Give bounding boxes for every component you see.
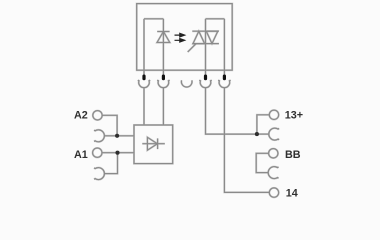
wire socket4 down to 13+ feed (206, 88, 257, 134)
wire output loop top rail (206, 18, 225, 20)
wire 13+ to bridge socket (257, 133, 269, 135)
rectifier box (134, 125, 173, 164)
relay body box U1 (137, 4, 233, 71)
terminal BB circle (269, 149, 278, 158)
plug contact 2 (162, 75, 165, 81)
bridge socket 13+ (269, 128, 279, 140)
wire socket1 to rectifier (143, 88, 145, 125)
wire A1 to rectifier (102, 152, 134, 154)
socket 1 (138, 80, 150, 88)
bridge socket BB (268, 167, 278, 179)
wire A2 row to rectifier (104, 135, 134, 137)
svg-text:A1: A1 (74, 149, 88, 161)
wire 13+ bracket (257, 115, 269, 134)
wire socket2 to rectifier (162, 88, 164, 125)
svg-text:13+: 13+ (285, 109, 303, 121)
rectifier diode line (142, 143, 165, 145)
junction dot A1 (115, 151, 119, 155)
wires soft-edge halo underlay (93, 4, 280, 198)
svg-text:A2: A2 (74, 110, 88, 122)
wire socket5 down to 14 feed (224, 88, 269, 192)
bridge socket A1 (94, 168, 104, 180)
socket 4 (199, 80, 211, 88)
bridge socket A2 (94, 130, 104, 142)
triac Q1 right triangle (206, 31, 218, 43)
terminal 13+ circle (269, 110, 278, 119)
plug contact 5 (223, 75, 226, 81)
terminal A1 circle (93, 148, 102, 157)
svg-text:BB: BB (285, 149, 301, 161)
LED D1 cathode bar (157, 31, 169, 33)
plug contact 4 (204, 75, 207, 81)
triac Q1 bottom bar MT1 (192, 43, 219, 45)
wire BB bracket (256, 153, 268, 172)
socket 3 empty (181, 80, 192, 87)
svg-text:14: 14 (286, 188, 298, 200)
junction dot 13+ (255, 132, 259, 136)
junction dot A2 (115, 134, 119, 138)
socket 5 (218, 80, 230, 88)
terminal A2 circle (93, 111, 102, 120)
LED D1 triangle (157, 32, 170, 43)
wire LED branch vertical (162, 19, 164, 75)
wire input loop top rail (144, 18, 163, 20)
wire input loop left vertical (143, 19, 145, 75)
opto arrow upper (175, 33, 187, 38)
rectifier diode cathode bar (157, 138, 159, 149)
triac Q1 top bar MT2 (192, 30, 219, 32)
wire triac branch vertical (205, 19, 207, 75)
wire output loop right vertical (223, 19, 225, 75)
socket 2 (157, 80, 169, 88)
plug contact 1 (142, 75, 145, 81)
opto arrow lower (175, 38, 187, 43)
terminal 14 circle (269, 188, 278, 197)
rectifier diode triangle (147, 137, 157, 150)
wire A2 to junction (102, 115, 117, 136)
triac Q1 left triangle (193, 31, 205, 43)
triac Q1 gate wire (188, 44, 196, 52)
wire A1 junction branch down (104, 153, 117, 174)
